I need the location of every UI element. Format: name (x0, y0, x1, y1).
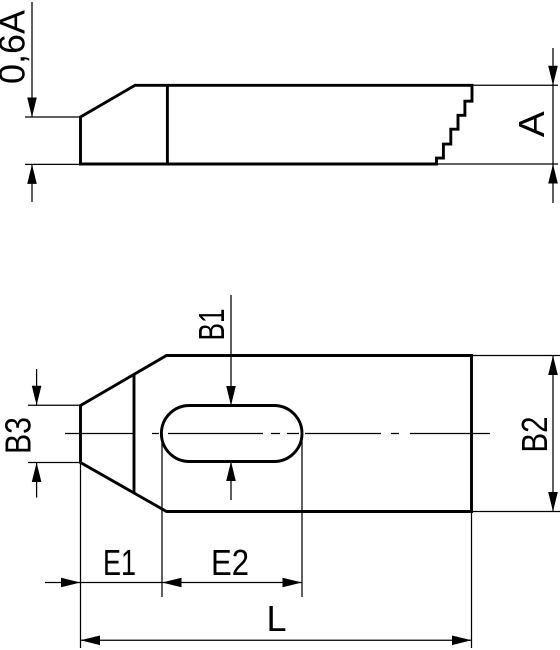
extension line L right (471, 512, 473, 649)
extension line A top (472, 84, 558, 86)
arrow E2 left (162, 578, 182, 588)
extension line nose top (25, 116, 81, 118)
dimension line B1 (230, 295, 232, 500)
arrow B3 top (32, 386, 42, 406)
arrow L left (81, 636, 101, 646)
dimension line L (81, 639, 472, 641)
extension line L left (80, 463, 82, 648)
svg-text:E1: E1 (103, 542, 136, 583)
side view outline with serrated step end (81, 85, 473, 164)
arrow 0,6A top (27, 98, 37, 118)
arrow A bottom (548, 164, 558, 184)
extension line E slot right (301, 434, 303, 597)
arrow A top (548, 66, 558, 86)
arrow B3 bottom (32, 463, 42, 483)
arrow L right (452, 636, 472, 646)
arrow 0,6A bottom (27, 164, 37, 184)
dimension line A (552, 48, 554, 203)
dimension line E1 E2 (45, 582, 302, 584)
arrow B2 top (548, 356, 558, 376)
arrow E2 right (283, 578, 303, 588)
dimension line 0,6A (31, 2, 33, 202)
svg-text:B2: B2 (514, 417, 555, 453)
arrow B2 bottom (548, 492, 558, 512)
slot (161, 406, 302, 462)
svg-text:E2: E2 (211, 542, 249, 583)
extension line B3 top (28, 404, 81, 406)
svg-text:0,6A: 0,6A (0, 10, 33, 84)
arrow B1 bottom (226, 462, 236, 482)
arrow B1 top (226, 386, 236, 406)
extension line B3 bottom (28, 462, 81, 464)
side view interior edge line (166, 85, 169, 164)
svg-text:L: L (266, 598, 286, 639)
extension line E slot left (161, 434, 163, 597)
plan view outline (81, 356, 472, 512)
centerline (65, 433, 490, 435)
dimension line B2 (552, 356, 554, 512)
dimension line B3 (36, 369, 38, 498)
svg-text:B3: B3 (0, 417, 39, 454)
extension line A bottom (437, 163, 559, 165)
extension line B2 bottom (472, 511, 560, 513)
svg-text:B1: B1 (191, 309, 232, 341)
svg-text:A: A (511, 111, 552, 137)
arrow E1 left outside (61, 578, 81, 588)
extension line nose bottom (25, 163, 81, 165)
plan view interior edge line (133, 375, 136, 493)
extension line B2 top (472, 355, 560, 357)
